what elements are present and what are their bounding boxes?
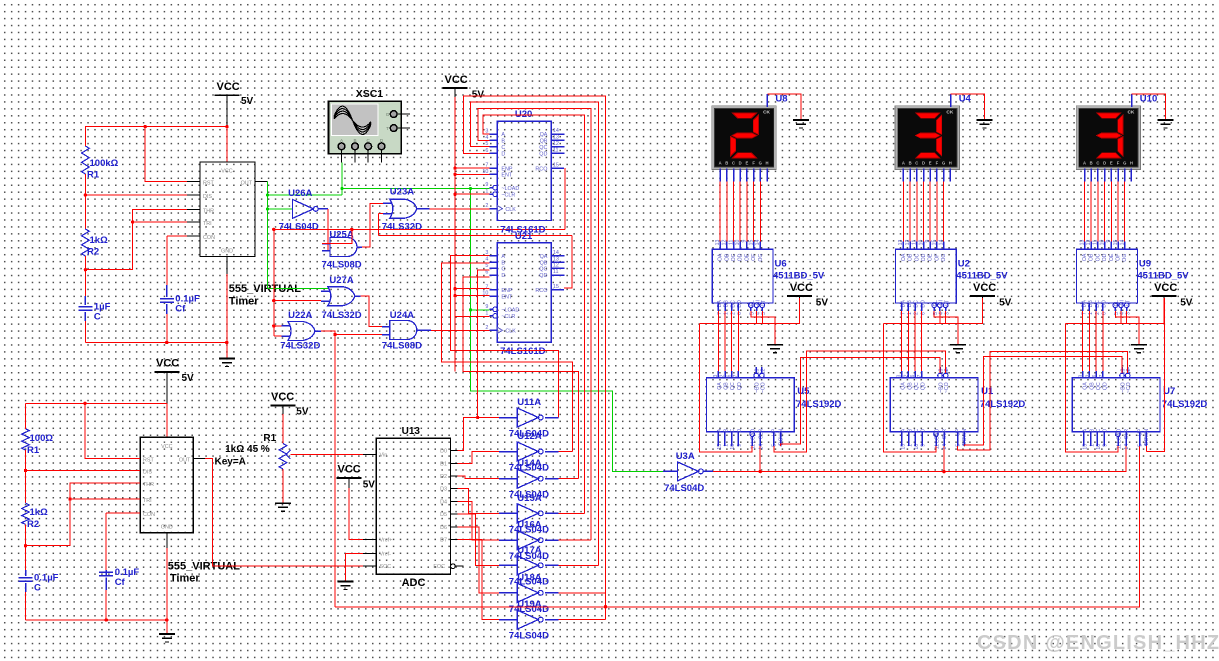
svg-text:D: D <box>739 161 742 166</box>
svg-text:U12A: U12A <box>517 431 541 442</box>
svg-text:QB: QB <box>540 139 548 145</box>
ground bus wire (555 #1) <box>85 342 226 344</box>
seven-segment display U4 <box>895 106 959 170</box>
svg-text:D1: D1 <box>440 461 447 467</box>
svg-text:11: 11 <box>728 239 734 244</box>
svg-text:10: 10 <box>482 169 488 175</box>
svg-text:QA: QA <box>901 382 907 390</box>
wire ADC D7 to inverter 8 input <box>458 540 505 620</box>
555 timer U? (top) body <box>200 162 255 257</box>
wire U24A in2 from rail riser <box>335 334 382 336</box>
wire ADC D0 to U11A input <box>458 418 505 451</box>
svg-text:100Ω: 100Ω <box>30 433 54 444</box>
wire RST riser <box>145 127 187 182</box>
svg-text:C: C <box>34 583 41 594</box>
wire U7 LOAD/CLR/UP/DOWN stubs <box>1116 432 1121 437</box>
svg-text:VCC: VCC <box>338 464 361 476</box>
svg-text:14: 14 <box>1124 444 1130 450</box>
wire U1 LOAD/CLR/UP/DOWN stubs <box>934 432 939 437</box>
svg-text:VCC: VCC <box>161 444 172 450</box>
svg-text:VCC: VCC <box>221 169 232 175</box>
svg-text:9: 9 <box>1106 239 1112 242</box>
svg-text:5: 5 <box>772 444 778 447</box>
svg-text:CK: CK <box>946 110 953 116</box>
wire U4 CK to ground <box>950 94 952 107</box>
svg-text:Vin: Vin <box>380 453 388 459</box>
svg-text:5: 5 <box>956 444 962 447</box>
svg-text:B: B <box>907 428 913 432</box>
svg-text:QC: QC <box>1096 382 1102 390</box>
svg-text:D2: D2 <box>440 474 447 480</box>
svg-text:10: 10 <box>482 291 488 297</box>
svg-text:QB: QB <box>540 260 548 266</box>
wire U5 ~LOAD to VCC <box>700 324 753 452</box>
wire potentiometer wiper to ADC Vin <box>291 454 377 456</box>
svg-text:F: F <box>752 161 755 166</box>
wire scope A/B/C/D stubs <box>341 150 343 163</box>
wire ADC D3 to inverter 4 input <box>458 489 505 514</box>
wire ADC D4 to inverter 5 input <box>458 501 505 540</box>
svg-text:C: C <box>1096 161 1099 166</box>
wire U19A output riser <box>558 619 605 621</box>
svg-text:U18A: U18A <box>517 572 541 583</box>
svg-text:C: C <box>732 161 735 166</box>
svg-text:RCO: RCO <box>535 166 547 172</box>
svg-text:11: 11 <box>553 269 559 275</box>
svg-text:OE: OE <box>744 253 750 261</box>
svg-text:2: 2 <box>903 374 909 377</box>
wire U8 segment pins to 4511 <box>719 168 721 181</box>
svg-text:7: 7 <box>485 284 488 290</box>
svg-text:OE: OE <box>928 253 934 261</box>
svg-text:THR: THR <box>143 482 154 488</box>
ADC U13 body <box>376 438 450 574</box>
svg-text:QD: QD <box>921 382 927 390</box>
svg-text:VCC: VCC <box>217 81 240 93</box>
svg-text:10: 10 <box>735 239 741 245</box>
wire carry chain U7 ~CO to U1 UP <box>958 352 1128 450</box>
wire U25A out up to U23A input <box>362 203 390 247</box>
svg-text:VCC: VCC <box>1154 282 1177 294</box>
svg-text:74LS192D: 74LS192D <box>1162 399 1208 410</box>
svg-text:13: 13 <box>1079 239 1085 245</box>
svg-text:RCO: RCO <box>535 288 547 294</box>
svg-text:13: 13 <box>715 239 721 245</box>
power VCC (ADC Vref+) <box>337 477 362 479</box>
svg-text:6: 6 <box>726 374 732 377</box>
wire 4511 U9 DA-DD to counter QA-QD <box>1082 303 1084 311</box>
svg-text:OA: OA <box>718 253 724 261</box>
svg-text:2: 2 <box>720 374 726 377</box>
svg-text:DIS: DIS <box>203 194 212 200</box>
wire U22A out down to bottom rail <box>321 331 335 607</box>
svg-text:U26A: U26A <box>288 188 312 199</box>
svg-text:6: 6 <box>910 374 916 377</box>
svg-text:1: 1 <box>485 310 488 316</box>
wire U5 bottom pin stubs A-D <box>717 432 719 446</box>
svg-text:QC: QC <box>539 267 547 273</box>
555 timer U? (bottom) body <box>140 437 193 533</box>
svg-text:QD: QD <box>1103 382 1109 390</box>
svg-text:B: B <box>909 161 912 166</box>
svg-text:OB: OB <box>908 253 914 261</box>
counter U20 74LS161D <box>497 121 551 220</box>
wire C to ground bus <box>84 312 86 321</box>
svg-text:~LOAD: ~LOAD <box>501 308 519 314</box>
svg-text:15: 15 <box>748 239 754 245</box>
resistor R1 100k <box>82 146 90 174</box>
svg-text:74LS08D: 74LS08D <box>382 341 422 352</box>
svg-text:EOC: EOC <box>433 564 445 570</box>
svg-text:OF: OF <box>1116 254 1122 261</box>
svg-text:CK: CK <box>1127 110 1134 116</box>
svg-text:VCC: VCC <box>790 282 813 294</box>
svg-text:U14A: U14A <box>517 458 541 469</box>
counter U1 74LS192D <box>890 378 978 432</box>
svg-text:A: A <box>1083 161 1086 166</box>
wire 4511 U9 ~BI ~LT to VCC <box>1119 303 1124 308</box>
svg-text:OB: OB <box>724 253 730 261</box>
svg-text:A: A <box>1083 428 1089 432</box>
wire U10 CK to ground <box>1131 94 1133 107</box>
svg-text:QA: QA <box>717 382 723 390</box>
svg-text:R1: R1 <box>263 433 276 444</box>
svg-text:14: 14 <box>938 239 944 245</box>
svg-text:C: C <box>501 267 505 273</box>
power VCC (counters) <box>443 87 468 89</box>
wire R1 to R2 / DIS <box>84 174 86 229</box>
svg-text:F: F <box>1117 161 1120 166</box>
svg-text:1kΩ: 1kΩ <box>30 507 49 518</box>
svg-text:ENP: ENP <box>501 288 512 294</box>
wire VCC to potentiometer <box>282 405 284 414</box>
svg-text:B: B <box>724 428 730 432</box>
svg-text:15: 15 <box>553 162 559 168</box>
potentiometer R1 1k Key=A <box>279 444 287 470</box>
svg-text:U10: U10 <box>1140 94 1157 105</box>
svg-text:2: 2 <box>1085 374 1091 377</box>
svg-text:5V: 5V <box>296 407 309 418</box>
svg-text:B: B <box>1089 428 1095 432</box>
wire 4511 U2 ~BI ~LT to VCC <box>938 303 943 308</box>
svg-text:D5: D5 <box>440 512 447 518</box>
svg-text:2: 2 <box>485 325 488 331</box>
svg-text:13: 13 <box>898 239 904 245</box>
555 #2 pin stubs <box>128 458 141 460</box>
svg-text:RST: RST <box>143 458 154 464</box>
svg-text:QB: QB <box>724 382 730 390</box>
svg-text:QC: QC <box>539 145 547 151</box>
svg-text:U25A: U25A <box>329 230 353 241</box>
wire U4 segment pins to 4511 <box>902 168 904 181</box>
svg-text:Key=A: Key=A <box>215 457 246 468</box>
svg-text:QB: QB <box>1089 382 1095 390</box>
svg-text:D: D <box>501 152 505 158</box>
svg-text:A: A <box>901 428 907 432</box>
svg-text:Timer: Timer <box>229 296 259 308</box>
svg-text:QD: QD <box>539 273 547 279</box>
svg-text:~CO: ~CO <box>1126 382 1132 393</box>
wire 4511 U2 DA-DD to counter QA-QD <box>901 303 903 311</box>
wire VCC to 555 U? pin VCC <box>226 95 228 126</box>
svg-text:H: H <box>949 161 952 166</box>
svg-text:OG: OG <box>758 254 764 262</box>
svg-text:5V: 5V <box>816 298 829 309</box>
svg-text:14: 14 <box>755 239 761 245</box>
svg-text:12: 12 <box>553 263 559 269</box>
wire TRI <box>133 221 187 223</box>
power VCC (4511 U2) <box>970 295 995 297</box>
wire CON to Cf <box>167 235 187 237</box>
ground (potentiometer) <box>275 502 291 504</box>
power VCC (555 timer 2) <box>154 371 179 373</box>
wire scope G/T stubs <box>397 113 410 115</box>
svg-text:C: C <box>501 145 505 151</box>
svg-text:U13: U13 <box>402 426 421 437</box>
wire carry chain U1 ~CO to U5 UP <box>774 351 946 452</box>
svg-text:74LS32D: 74LS32D <box>280 341 320 352</box>
svg-text:OC: OC <box>914 253 920 261</box>
svg-text:QC: QC <box>914 382 920 390</box>
svg-text:74LS192D: 74LS192D <box>796 399 842 410</box>
svg-text:XSC1: XSC1 <box>356 88 384 100</box>
svg-text:14: 14 <box>1120 239 1126 245</box>
svg-text:CSDN @ENGLISH_HHZ: CSDN @ENGLISH_HHZ <box>977 632 1219 654</box>
svg-text:B: B <box>1090 161 1093 166</box>
svg-text:CLK: CLK <box>505 329 516 335</box>
svg-text:2: 2 <box>485 203 488 209</box>
ADC pin stubs <box>363 454 376 456</box>
svg-text:15: 15 <box>553 284 559 290</box>
wire Vref- to ground <box>345 554 363 582</box>
svg-text:3: 3 <box>897 374 903 377</box>
wire U18A output riser <box>558 592 605 594</box>
svg-text:VCC: VCC <box>271 391 294 403</box>
capacitor Cf 0.1uF (bottom) <box>105 570 107 576</box>
svg-text:5V: 5V <box>241 96 254 107</box>
wire U1 ~LOAD to VCC <box>883 324 936 452</box>
svg-text:THR: THR <box>203 208 214 214</box>
svg-text:10: 10 <box>1099 239 1105 245</box>
svg-text:15: 15 <box>1113 239 1119 245</box>
wire U27A out to U24A input <box>361 296 390 326</box>
svg-text:1kΩ 45 %: 1kΩ 45 % <box>225 444 270 455</box>
svg-text:74LS192D: 74LS192D <box>980 399 1026 410</box>
svg-text:4511BD_5V: 4511BD_5V <box>956 271 1008 282</box>
svg-text:7: 7 <box>917 374 923 377</box>
wire U21 A input from inverter 1 <box>450 256 558 418</box>
svg-text:3: 3 <box>1079 374 1085 377</box>
svg-text:U22A: U22A <box>288 310 312 321</box>
svg-text:DOWN: DOWN <box>778 429 784 446</box>
wire borrow chain U1 ~BO to U5 DOWN <box>781 358 940 446</box>
wire VCC to R1 (bottom) <box>25 403 27 428</box>
svg-text:CLR: CLR <box>1124 429 1130 440</box>
svg-text:10: 10 <box>918 239 924 245</box>
wire U7 bottom pin stubs A-D <box>1083 432 1085 446</box>
svg-text:B: B <box>353 138 356 143</box>
svg-text:D: D <box>922 161 925 166</box>
svg-text:U11A: U11A <box>517 397 541 408</box>
svg-text:4511BD_5V: 4511BD_5V <box>1137 271 1189 282</box>
svg-text:~CO: ~CO <box>944 382 950 393</box>
ground (U4 CK) <box>976 119 992 121</box>
wire 555#1 GND pin to ground <box>226 274 228 359</box>
wire U7 ~BO ~CO stubs <box>1120 373 1125 378</box>
ground (555 #2) <box>159 633 175 635</box>
wire U26A out to U25A input <box>327 209 329 251</box>
svg-text:~CO: ~CO <box>760 382 766 393</box>
wire U7 ~LOAD to VCC <box>1065 324 1118 452</box>
wire U12A output riser <box>558 451 572 453</box>
wire U21 RCO riser <box>564 236 572 289</box>
wire 4511 U6 ~EL to ground <box>749 303 754 308</box>
svg-text:U27A: U27A <box>329 275 353 286</box>
wire U1 ~BO ~CO stubs <box>938 373 943 378</box>
svg-text:A: A <box>501 254 505 260</box>
svg-text:QA: QA <box>1083 382 1089 390</box>
svg-text:B: B <box>501 260 505 266</box>
wire R2 bottom to THR/TRI <box>85 209 187 269</box>
svg-text:F: F <box>936 161 939 166</box>
wire U5 ~BO ~CO stubs <box>754 373 759 378</box>
svg-text:ENT: ENT <box>501 173 512 179</box>
svg-text:OC: OC <box>731 253 737 261</box>
svg-text:QA: QA <box>540 254 548 260</box>
wire R2 to THR/TRI (bottom) <box>26 483 141 546</box>
wire U8 CK to ground <box>766 94 768 107</box>
capacitor Cf 0.1uF (top circuit) <box>166 285 168 297</box>
svg-text:GND: GND <box>221 249 233 255</box>
svg-text:UP: UP <box>956 428 962 436</box>
svg-text:B: B <box>725 161 728 166</box>
svg-text:5V: 5V <box>472 90 485 101</box>
wire U3A out to 192D CLR pins <box>713 446 1126 472</box>
wire bottom rail to U7 UP <box>335 446 1140 607</box>
svg-text:14: 14 <box>758 444 764 450</box>
svg-text:U8: U8 <box>775 94 787 105</box>
svg-text:74LS08D: 74LS08D <box>322 260 362 271</box>
svg-text:4: 4 <box>485 257 488 263</box>
svg-text:SOC: SOC <box>380 564 392 570</box>
wire U10 segment pins to 4511 <box>1084 168 1086 181</box>
power VCC (4511 U9) <box>1151 295 1176 297</box>
svg-text:15: 15 <box>932 239 938 245</box>
svg-text:D6: D6 <box>440 525 447 531</box>
svg-text:14: 14 <box>553 128 559 134</box>
ground (U10 CK) <box>1157 119 1173 121</box>
svg-text:B: B <box>501 139 505 145</box>
wire GND pin to ground (bottom) <box>166 548 168 634</box>
svg-text:74LS04D: 74LS04D <box>664 483 704 494</box>
svg-text:DOWN: DOWN <box>962 429 968 446</box>
svg-text:Timer: Timer <box>170 573 200 585</box>
power VCC (4511 U6) <box>787 295 812 297</box>
svg-text:5V: 5V <box>1180 298 1193 309</box>
wire 4511 U9 ~EL to ground <box>1113 303 1118 308</box>
svg-text:U4: U4 <box>959 94 972 105</box>
wire U23A out to U20 CLK <box>430 208 491 210</box>
counter U5 74LS192D <box>707 378 795 432</box>
svg-text:U3A: U3A <box>676 451 695 462</box>
ground (4511 U6) <box>767 344 783 346</box>
svg-text:12: 12 <box>905 239 911 245</box>
svg-text:14: 14 <box>942 444 948 450</box>
wire feedback net U20 RCO to U25A <box>274 228 565 230</box>
resistor R2 1k <box>82 229 90 256</box>
svg-text:6: 6 <box>1092 374 1098 377</box>
svg-text:~LOAD: ~LOAD <box>501 186 519 192</box>
svg-text:ADC: ADC <box>402 577 426 589</box>
svg-text:OUT: OUT <box>241 181 253 187</box>
wire U20 input nest C <box>471 102 599 565</box>
svg-text:5: 5 <box>485 263 488 269</box>
svg-text:C: C <box>94 312 101 323</box>
wire ADC D1 to inverter 2 input <box>458 452 505 464</box>
wire 4511 U2 ~EL to ground <box>932 303 937 308</box>
svg-text:OF: OF <box>934 254 940 261</box>
svg-text:74LS04D: 74LS04D <box>509 631 549 642</box>
svg-text:D: D <box>1103 161 1106 166</box>
svg-text:4: 4 <box>1144 444 1150 447</box>
svg-text:7: 7 <box>733 374 739 377</box>
wire U22A inputs from feedback net <box>273 229 275 336</box>
svg-text:VCC: VCC <box>156 358 179 370</box>
svg-text:G: G <box>759 161 762 166</box>
resistor R2 1k (bottom) <box>22 503 30 524</box>
svg-text:UP: UP <box>1138 428 1144 436</box>
wire U23A input 2 riser <box>378 213 383 215</box>
svg-text:74LS161D: 74LS161D <box>500 346 546 357</box>
svg-text:9: 9 <box>742 239 748 242</box>
wire ADC D6 to inverter 7 input <box>458 527 505 593</box>
svg-text:13: 13 <box>553 256 559 262</box>
svg-text:C: C <box>915 161 918 166</box>
svg-text:DOWN: DOWN <box>1144 429 1150 446</box>
svg-text:7: 7 <box>1099 374 1105 377</box>
ground (4511 U2) <box>950 344 966 346</box>
svg-text:A: A <box>902 161 905 166</box>
svg-text:OF: OF <box>751 254 757 261</box>
svg-text:OG: OG <box>1122 254 1128 262</box>
ground (U8 CK) <box>793 119 809 121</box>
svg-text:U24A: U24A <box>390 310 414 321</box>
capacitor C 0.1uF (bottom) <box>25 546 27 576</box>
svg-text:Vref-: Vref- <box>380 552 392 558</box>
svg-text:A: A <box>501 132 505 138</box>
svg-text:14: 14 <box>553 250 559 256</box>
wire ADC D5 to inverter 6 input <box>458 514 505 565</box>
wire borrow chain U7 ~BO to U1 DOWN <box>964 357 1122 446</box>
svg-text:13: 13 <box>553 135 559 141</box>
svg-text:12: 12 <box>553 141 559 147</box>
svg-text:11: 11 <box>912 239 918 244</box>
wire U17A output riser <box>558 564 598 566</box>
wire 4511 U6 DA-DD to counter QA-QD <box>717 303 719 311</box>
svg-text:1kΩ: 1kΩ <box>90 235 109 246</box>
svg-text:DIS: DIS <box>143 470 152 476</box>
svg-text:4511BD_5V: 4511BD_5V <box>773 271 825 282</box>
svg-text:5V: 5V <box>363 480 376 491</box>
power VCC (555 timer 1) <box>215 94 240 96</box>
svg-text:D4: D4 <box>440 499 447 505</box>
counter U21 74LS161D <box>497 243 551 342</box>
svg-text:D7: D7 <box>440 538 447 544</box>
wire U20 input nest B <box>478 109 591 541</box>
svg-text:U17A: U17A <box>517 545 541 556</box>
wire VCC bus (555 #2) <box>166 372 168 403</box>
svg-text:9: 9 <box>925 239 931 242</box>
